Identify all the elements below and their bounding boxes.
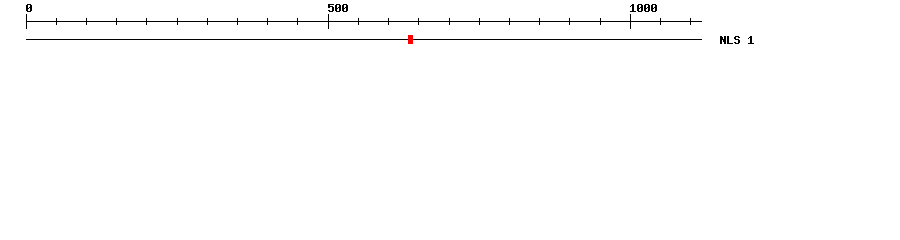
- ruler major tick at 1000: [630, 14, 631, 29]
- ruler major tick at 500: [328, 14, 329, 29]
- ruler major tick at 0: [26, 14, 27, 29]
- ruler minor tick: [388, 18, 389, 25]
- glyph L: [727, 36, 733, 44]
- ruler minor tick: [600, 18, 601, 25]
- ruler minor tick: [267, 18, 268, 25]
- glyph 1: [630, 4, 636, 12]
- ruler minor tick: [449, 18, 450, 25]
- ruler label 1000: [630, 4, 658, 12]
- ruler minor tick: [177, 18, 178, 25]
- ruler minor tick: [660, 18, 661, 25]
- ruler minor tick: [86, 18, 87, 25]
- glyph 0: [637, 4, 643, 12]
- ruler minor tick: [237, 18, 238, 25]
- ruler minor tick: [509, 18, 510, 25]
- glyph 0: [651, 4, 657, 12]
- glyph 0: [342, 4, 348, 12]
- glyph 0: [26, 4, 32, 12]
- glyph 5: [328, 4, 334, 12]
- ruler minor tick: [56, 18, 57, 25]
- ruler minor tick: [297, 18, 298, 25]
- ruler minor tick: [569, 18, 570, 25]
- glyph S: [734, 36, 740, 44]
- ruler minor tick: [358, 18, 359, 25]
- sequence line: [26, 39, 702, 40]
- feature marker NLS 1 (red box): [408, 35, 413, 44]
- ruler minor tick: [539, 18, 540, 25]
- ruler minor tick: [146, 18, 147, 25]
- ruler minor tick: [690, 18, 691, 25]
- glyph 0: [644, 4, 650, 12]
- glyph N: [720, 36, 726, 44]
- ruler minor tick: [479, 18, 480, 25]
- glyph 1: [748, 36, 754, 44]
- glyph 0: [335, 4, 341, 12]
- ruler minor tick: [207, 18, 208, 25]
- ruler label 500: [328, 4, 349, 12]
- ruler minor tick: [116, 18, 117, 25]
- ruler minor tick: [418, 18, 419, 25]
- ruler label 0: [26, 4, 33, 12]
- feature label NLS 1: [720, 36, 755, 44]
- ruler axis line: [26, 21, 702, 22]
